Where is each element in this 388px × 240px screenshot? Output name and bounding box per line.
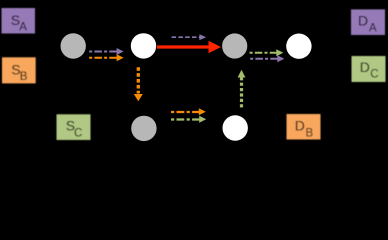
node circle 6 (white, bottom)	[223, 115, 248, 140]
small purple dashed arrow above red arrow	[172, 34, 207, 40]
green dashed arrow circle3 to circle4	[250, 49, 284, 56]
green dashed arrow circle5 to circle6	[171, 116, 206, 123]
purple dashed arrow circle3 to circle4	[250, 55, 284, 62]
destination label box D_B	[287, 114, 321, 140]
green vertical dashed arrow circle6 up to circle3	[238, 70, 246, 108]
svg-text:A: A	[369, 22, 377, 34]
node circle 5 (gray, bottom)	[131, 116, 156, 141]
orange vertical dashed arrow circle2 down to circle5	[134, 67, 143, 101]
svg-text:C: C	[74, 127, 82, 139]
destination label box D_A	[351, 9, 385, 35]
svg-text:D: D	[358, 13, 368, 29]
svg-text:C: C	[370, 69, 378, 81]
destination label box D_C	[352, 56, 386, 82]
node circle 4 (white, top-right)	[286, 34, 311, 59]
orange dashed arrow circle1 to circle2	[89, 54, 123, 61]
svg-text:A: A	[19, 22, 27, 34]
node circle 2 (white, top)	[131, 33, 156, 58]
svg-text:B: B	[20, 71, 28, 83]
svg-text:B: B	[306, 127, 314, 139]
orange dashed arrow circle5 to circle6	[171, 108, 206, 115]
node circle 1 (gray, top-left)	[60, 33, 85, 58]
node circle 3 (gray, top)	[222, 33, 247, 58]
source label box S_B	[2, 57, 36, 83]
purple dashed arrow circle1 to circle2	[89, 48, 123, 55]
svg-text:D: D	[360, 59, 370, 75]
source label box S_A	[2, 8, 36, 34]
source label box S_C	[57, 114, 91, 140]
red solid thick arrow circle2 to circle3	[157, 41, 221, 53]
svg-text:D: D	[295, 118, 305, 134]
